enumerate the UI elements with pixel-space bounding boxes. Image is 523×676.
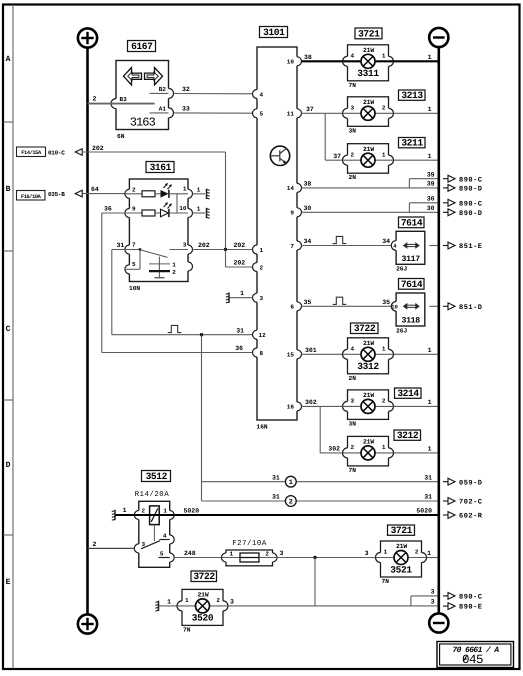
lamp 3520 <box>182 589 223 625</box>
svg-text:1: 1 <box>382 53 386 60</box>
wire 202 junction <box>193 242 253 267</box>
wire 202 from 010-C <box>82 145 225 250</box>
svg-text:D: D <box>6 461 11 470</box>
svg-text:1: 1 <box>384 549 388 556</box>
svg-text:890-D: 890-D <box>459 186 483 194</box>
svg-text:1: 1 <box>382 346 386 353</box>
svg-text:851-D: 851-D <box>459 304 483 312</box>
left turn arrow icon <box>124 68 142 85</box>
svg-text:3: 3 <box>280 550 284 557</box>
svg-text:202: 202 <box>92 145 104 152</box>
battery plus terminal bottom <box>78 614 97 633</box>
capacitor in 3161 <box>149 257 176 278</box>
svg-text:1: 1 <box>167 598 171 605</box>
wire to lamp 3211 and bus <box>394 153 438 160</box>
svg-text:8: 8 <box>260 350 264 357</box>
wire 35 <box>302 299 438 306</box>
svg-text:3: 3 <box>230 598 234 605</box>
wire to lamp 3212 and bus <box>394 446 438 453</box>
svg-text:2: 2 <box>142 507 146 514</box>
svg-text:1: 1 <box>183 185 187 192</box>
svg-text:890-C: 890-C <box>459 176 483 184</box>
svg-text:A: A <box>6 55 11 64</box>
svg-text:7: 7 <box>290 243 294 250</box>
svg-text:F14/15A: F14/15A <box>21 150 42 156</box>
svg-text:10: 10 <box>287 59 295 66</box>
relay coil <box>150 506 160 541</box>
label 3211 <box>399 138 426 148</box>
output arrow 702-C <box>443 498 483 507</box>
svg-text:3: 3 <box>431 589 435 596</box>
svg-text:64: 64 <box>91 186 99 193</box>
ground at 3161 pin 1 <box>193 186 210 199</box>
svg-text:7N: 7N <box>349 82 357 89</box>
wire 302 <box>302 399 438 453</box>
svg-text:1: 1 <box>185 597 189 604</box>
svg-text:2N: 2N <box>349 174 357 181</box>
output arrow 602-R <box>443 512 483 521</box>
svg-text:30: 30 <box>304 205 312 212</box>
indicator unit 3118 <box>391 293 425 334</box>
svg-text:035-B: 035-B <box>48 191 65 198</box>
svg-text:2: 2 <box>351 444 355 451</box>
svg-text:045: 045 <box>462 653 483 667</box>
svg-text:21W: 21W <box>198 592 209 599</box>
transistor symbol in 3101 <box>270 146 289 165</box>
output arrow 890-C third <box>443 593 483 602</box>
pulse symbol on wire 31 <box>168 325 182 332</box>
svg-text:31: 31 <box>424 494 432 501</box>
svg-text:32: 32 <box>182 86 190 93</box>
svg-text:2: 2 <box>216 597 220 604</box>
svg-text:31: 31 <box>424 474 432 481</box>
fuse label F16/10A <box>17 191 46 201</box>
svg-text:7614: 7614 <box>401 217 423 228</box>
svg-text:7614: 7614 <box>401 279 423 290</box>
ground at relay pin 2 <box>112 507 135 520</box>
svg-text:A1: A1 <box>159 106 167 113</box>
wire 31 from 3161 pin 7 <box>112 242 253 336</box>
ground wire 1 at 3101 pin 3 <box>226 290 253 303</box>
wire 30 pin9 to 890 outputs <box>302 195 438 212</box>
svg-text:3117: 3117 <box>401 255 420 264</box>
svg-text:21W: 21W <box>363 47 374 54</box>
svg-text:21W: 21W <box>363 99 374 106</box>
svg-text:5: 5 <box>260 111 264 118</box>
svg-text:39: 39 <box>427 171 435 178</box>
svg-text:3521: 3521 <box>390 564 412 575</box>
wire 33 <box>174 105 253 113</box>
svg-text:4: 4 <box>260 91 264 98</box>
svg-text:3: 3 <box>351 105 355 112</box>
wire 31 down to outputs <box>202 335 438 501</box>
svg-text:3: 3 <box>260 295 264 302</box>
wire 37 <box>302 106 438 160</box>
label 3721 second <box>388 525 415 535</box>
inline connector 2 <box>285 496 296 507</box>
svg-text:2: 2 <box>382 398 386 405</box>
flasher unit 3161 box <box>125 179 193 292</box>
wire 38 thick <box>302 54 438 62</box>
svg-text:2: 2 <box>351 151 355 158</box>
svg-text:21W: 21W <box>363 439 374 446</box>
margin tick 1 <box>3 121 13 123</box>
svg-text:1: 1 <box>230 551 234 558</box>
svg-text:702-C: 702-C <box>459 499 483 507</box>
svg-text:2: 2 <box>415 549 419 556</box>
output arrow 890-D second <box>443 209 483 218</box>
output arrow 890-E <box>443 603 483 612</box>
svg-text:010-C: 010-C <box>48 150 65 157</box>
svg-text:26J: 26J <box>396 327 407 334</box>
svg-text:7N: 7N <box>382 578 390 585</box>
svg-text:5020: 5020 <box>184 507 200 514</box>
svg-text:851-E: 851-E <box>459 243 483 251</box>
lamp 3312 <box>348 338 389 374</box>
svg-text:16: 16 <box>287 404 295 411</box>
net 035-B input <box>48 190 82 198</box>
output arrow 890-C second <box>443 199 483 208</box>
wire 34 <box>302 238 438 245</box>
svg-text:30: 30 <box>427 195 435 202</box>
battery minus terminal bottom <box>429 613 448 632</box>
relay contacts <box>141 540 170 558</box>
pulse symbol on wire 34 <box>333 236 347 243</box>
svg-text:12: 12 <box>259 332 267 339</box>
svg-text:16N: 16N <box>257 423 268 430</box>
svg-text:2: 2 <box>172 269 176 276</box>
svg-text:21W: 21W <box>363 392 374 399</box>
label 3214 <box>395 388 422 398</box>
label 6167 <box>128 41 156 52</box>
svg-text:3161: 3161 <box>150 162 172 173</box>
wire 36 from 3161 pin 9 <box>102 206 253 353</box>
svg-text:B: B <box>6 185 11 194</box>
svg-text:3311: 3311 <box>357 68 379 79</box>
label 3512 <box>142 471 171 482</box>
label 3101 <box>260 27 288 38</box>
margin tick 2 <box>3 250 13 252</box>
minus return bus wire <box>437 47 440 613</box>
indicator unit 3117 <box>391 231 425 272</box>
svg-text:1: 1 <box>427 550 431 557</box>
svg-text:4: 4 <box>351 346 355 353</box>
margin column line <box>12 5 14 670</box>
svg-text:39: 39 <box>427 181 435 188</box>
fuse F27/10A <box>222 550 278 566</box>
svg-text:2: 2 <box>289 499 293 507</box>
svg-text:3163: 3163 <box>130 115 156 129</box>
svg-text:3722: 3722 <box>193 571 215 582</box>
margin tick 3 <box>3 399 13 401</box>
svg-text:3722: 3722 <box>354 323 376 334</box>
label 7614 <box>399 217 425 228</box>
svg-text:3721: 3721 <box>391 525 413 536</box>
label 3721 <box>355 28 382 39</box>
svg-text:890-C: 890-C <box>459 594 483 602</box>
wire 5020 <box>134 507 437 515</box>
svg-text:202: 202 <box>234 260 246 267</box>
label 3722 second <box>191 571 217 582</box>
svg-text:1: 1 <box>382 151 386 158</box>
svg-text:1: 1 <box>382 444 386 451</box>
wire 38 pin14 to 890 outputs <box>302 171 438 188</box>
lamp 3212 indicator <box>348 436 389 466</box>
ground at lamp 3520 <box>155 598 177 611</box>
lamp 3311 <box>348 45 389 81</box>
svg-text:1: 1 <box>123 507 127 514</box>
svg-text:5: 5 <box>132 261 136 268</box>
svg-text:B2: B2 <box>159 86 167 93</box>
svg-text:059-D: 059-D <box>459 479 483 487</box>
label 3722 <box>351 323 379 334</box>
svg-text:2: 2 <box>132 186 136 193</box>
svg-text:3312: 3312 <box>357 361 379 372</box>
ground at 3161 pin 10 <box>193 206 210 219</box>
svg-text:302: 302 <box>305 399 317 406</box>
svg-text:35: 35 <box>304 299 312 306</box>
svg-text:7N: 7N <box>349 467 357 474</box>
svg-text:C: C <box>6 325 11 334</box>
resistor in 3161 row1 <box>125 191 161 197</box>
svg-text:1: 1 <box>197 206 201 213</box>
svg-text:34: 34 <box>382 238 390 245</box>
svg-text:890-D: 890-D <box>459 210 483 218</box>
link wire between LED outputs <box>176 194 178 213</box>
fuse label F14/15A <box>17 147 46 157</box>
svg-text:1: 1 <box>428 446 432 453</box>
svg-text:7N: 7N <box>183 626 191 633</box>
svg-text:31: 31 <box>272 494 280 501</box>
svg-text:2N: 2N <box>349 375 357 382</box>
relay 3512 box <box>134 501 174 567</box>
output arrow 890-C <box>443 175 483 184</box>
svg-text:302: 302 <box>328 446 340 453</box>
svg-text:21W: 21W <box>396 543 407 550</box>
wire 2 to relay pin 3 <box>88 541 135 549</box>
svg-text:38: 38 <box>304 181 312 188</box>
svg-text:3101: 3101 <box>263 27 285 38</box>
title block <box>437 642 514 668</box>
svg-text:1: 1 <box>428 153 432 160</box>
wire 3 from fuse <box>277 550 376 606</box>
battery plus terminal top <box>78 28 97 47</box>
svg-text:3520: 3520 <box>192 613 214 624</box>
svg-text:602-R: 602-R <box>459 513 483 521</box>
svg-text:2: 2 <box>260 264 264 271</box>
lamp 3521 <box>381 541 422 577</box>
svg-text:30: 30 <box>427 205 435 212</box>
control unit 3101 <box>253 47 302 430</box>
svg-text:3: 3 <box>183 241 187 248</box>
LED D2 in 3161 <box>161 202 189 217</box>
switch in 3161 <box>125 248 188 269</box>
svg-text:890-C: 890-C <box>459 200 483 208</box>
pulse symbol on wire 35 <box>333 297 347 304</box>
svg-text:9: 9 <box>132 206 136 213</box>
svg-text:3: 3 <box>365 550 369 557</box>
svg-text:3N: 3N <box>349 127 357 134</box>
svg-text:1: 1 <box>428 54 432 61</box>
svg-text:3214: 3214 <box>397 388 419 399</box>
net 010-C input <box>48 149 82 157</box>
svg-text:1: 1 <box>172 262 176 269</box>
svg-text:37: 37 <box>333 153 341 160</box>
svg-text:6N: 6N <box>117 133 125 140</box>
svg-text:1: 1 <box>163 507 167 514</box>
wire 2 to 3163 pin B3 <box>88 96 155 104</box>
svg-text:1: 1 <box>240 290 244 297</box>
output arrow 059-D <box>443 478 483 487</box>
svg-text:37: 37 <box>306 106 314 113</box>
svg-text:3118: 3118 <box>401 317 420 326</box>
svg-text:890-E: 890-E <box>459 604 483 612</box>
wire 3 from lamp 3520 to 890 outputs <box>228 589 438 606</box>
svg-text:4: 4 <box>163 532 167 539</box>
svg-text:2: 2 <box>93 541 97 548</box>
svg-text:3: 3 <box>351 398 355 405</box>
resistor in 3161 row2 <box>125 210 161 216</box>
svg-text:5020: 5020 <box>416 507 432 514</box>
svg-text:36: 36 <box>235 345 243 352</box>
svg-text:7: 7 <box>132 241 136 248</box>
svg-text:2: 2 <box>93 96 97 103</box>
svg-text:3213: 3213 <box>401 90 423 101</box>
svg-text:21W: 21W <box>363 146 374 153</box>
svg-text:1: 1 <box>428 399 432 406</box>
svg-text:10: 10 <box>179 205 187 212</box>
svg-text:301: 301 <box>305 347 317 354</box>
output arrow 851-E <box>443 242 483 251</box>
svg-text:R14/20A: R14/20A <box>135 490 170 499</box>
margin tick 4 <box>3 534 13 536</box>
lamp 3214 indicator <box>348 390 389 420</box>
output arrow 851-D <box>443 303 483 312</box>
svg-text:35: 35 <box>382 299 390 306</box>
wire 64 <box>82 186 125 193</box>
lamp 3211 indicator <box>348 144 389 174</box>
svg-text:2: 2 <box>382 105 386 112</box>
svg-text:21W: 21W <box>363 340 374 347</box>
svg-text:3N: 3N <box>349 420 357 427</box>
svg-text:10: 10 <box>391 303 398 310</box>
svg-text:34: 34 <box>304 238 312 245</box>
svg-text:3721: 3721 <box>358 29 380 40</box>
wire 248 <box>174 550 221 558</box>
svg-text:1: 1 <box>289 479 293 487</box>
svg-text:36: 36 <box>104 206 112 213</box>
plus supply rail wire <box>86 48 89 615</box>
svg-text:1: 1 <box>428 106 432 113</box>
svg-text:E: E <box>6 578 11 587</box>
svg-text:3211: 3211 <box>401 138 423 149</box>
label 3212 <box>394 430 421 440</box>
switch 3163 <box>111 61 174 140</box>
svg-text:F16/10A: F16/10A <box>21 194 42 200</box>
label 3161 <box>146 162 174 173</box>
svg-text:3: 3 <box>431 598 435 605</box>
label 3213 <box>399 90 426 100</box>
svg-text:31: 31 <box>272 474 280 481</box>
svg-text:14: 14 <box>287 185 295 192</box>
svg-text:31: 31 <box>117 242 125 249</box>
wire 32 <box>174 86 253 94</box>
svg-text:248: 248 <box>184 550 196 557</box>
svg-text:F27/10A: F27/10A <box>232 539 267 548</box>
svg-text:2: 2 <box>265 551 269 558</box>
svg-text:5: 5 <box>160 551 164 558</box>
inline connector 1 <box>285 476 296 487</box>
svg-text:3512: 3512 <box>146 471 168 482</box>
svg-text:B3: B3 <box>120 96 128 103</box>
lamp 3213 indicator <box>348 97 389 127</box>
svg-text:15: 15 <box>287 352 295 359</box>
LED D1 in 3161 <box>161 183 189 198</box>
label 7614 second <box>399 279 425 290</box>
svg-text:31: 31 <box>236 327 244 334</box>
svg-text:3212: 3212 <box>397 430 419 441</box>
svg-text:6167: 6167 <box>131 41 153 52</box>
output arrow 890-D <box>443 185 483 194</box>
svg-text:11: 11 <box>287 111 295 118</box>
svg-text:26J: 26J <box>396 266 407 273</box>
svg-text:202: 202 <box>234 242 246 249</box>
right turn arrow icon <box>145 68 163 85</box>
svg-text:6: 6 <box>290 304 294 311</box>
svg-text:9: 9 <box>290 210 294 217</box>
svg-text:1: 1 <box>428 347 432 354</box>
svg-text:38: 38 <box>304 54 312 61</box>
svg-text:1: 1 <box>260 247 264 254</box>
svg-text:1: 1 <box>197 186 201 193</box>
svg-text:202: 202 <box>198 242 210 249</box>
svg-text:10N: 10N <box>129 285 140 292</box>
svg-text:33: 33 <box>182 105 190 112</box>
battery minus terminal top <box>429 28 448 47</box>
wire 301 <box>302 347 438 354</box>
wires at lamp 3521 <box>365 550 438 557</box>
svg-text:4: 4 <box>351 53 355 60</box>
